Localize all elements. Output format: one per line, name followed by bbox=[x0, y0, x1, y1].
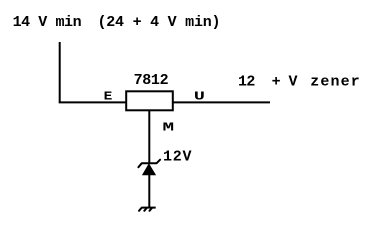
wire: regulator pin M down to zener cathode bbox=[148, 110, 150, 163]
regulator U1 body (7812) bbox=[126, 91, 173, 110]
svg-text:(24 + 4 V min): (24 + 4 V min) bbox=[98, 14, 221, 31]
zener diode D1: anode triangle bbox=[142, 163, 156, 175]
svg-text:zener: zener bbox=[310, 74, 360, 91]
wire: zener anode down to ground bbox=[148, 175, 150, 207]
ground symbol: hatch tick 2 bbox=[144, 208, 146, 211]
ground symbol: bar bbox=[141, 207, 155, 209]
wire: vertical drop from supply to input net bbox=[59, 42, 61, 102]
wire: output from regulator pin U to +12V node bbox=[173, 101, 270, 103]
ground symbol: hatch tick 1 bbox=[139, 208, 141, 211]
svg-text:U: U bbox=[194, 89, 205, 103]
svg-text:12V: 12V bbox=[163, 148, 192, 165]
svg-text:14 V min: 14 V min bbox=[13, 14, 82, 31]
svg-text:12 + V: 12 + V bbox=[238, 74, 298, 91]
svg-text:M: M bbox=[163, 120, 175, 134]
wire: input horizontal into regulator pin E bbox=[59, 101, 126, 103]
ground symbol: hatch tick 3 bbox=[150, 208, 152, 211]
svg-text:7812: 7812 bbox=[134, 72, 169, 89]
svg-text:E: E bbox=[104, 89, 113, 103]
zener diode D1: cathode bar with bent ends bbox=[138, 160, 160, 168]
